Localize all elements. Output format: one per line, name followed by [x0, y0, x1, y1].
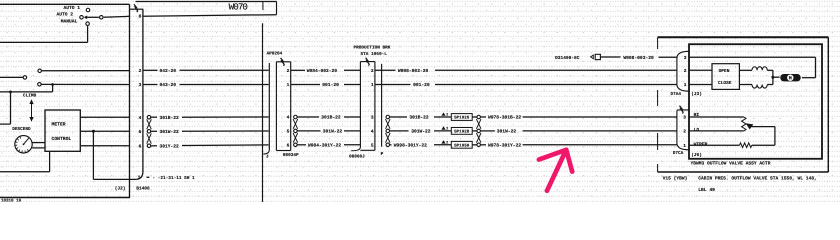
svg-text:301W-22: 301W-22 [497, 129, 517, 135]
svg-text:W984-301Y-22: W984-301Y-22 [308, 143, 341, 149]
svg-text:AP0204: AP0204 [267, 52, 283, 57]
svg-text:CLOSE: CLOSE [718, 80, 732, 86]
svg-text:SP1950: SP1950 [454, 143, 470, 148]
svg-text:4: 4 [371, 130, 374, 135]
svg-text:2: 2 [446, 140, 448, 145]
svg-text:3: 3 [371, 115, 374, 121]
svg-text:301Y-22: 301Y-22 [160, 144, 180, 150]
svg-text:2: 2 [287, 68, 290, 74]
svg-text:4: 4 [139, 116, 142, 121]
svg-text:M: M [789, 76, 792, 82]
svg-text:1: 1 [138, 175, 141, 180]
svg-text:D7CA: D7CA [673, 151, 684, 156]
svg-text:08060J: 08060J [349, 155, 365, 160]
svg-text:042-20: 042-20 [160, 68, 177, 74]
svg-text:MANUAL: MANUAL [61, 19, 78, 25]
svg-text:SP1928: SP1928 [454, 130, 470, 135]
svg-text:DESCEND: DESCEND [12, 127, 31, 132]
svg-text:001-20: 001-20 [413, 82, 430, 88]
svg-text:8: 8 [139, 14, 142, 20]
svg-text:W984-002-20: W984-002-20 [307, 68, 338, 74]
svg-text:METER: METER [52, 122, 66, 128]
svg-text:301W-22: 301W-22 [160, 129, 180, 135]
svg-text:CABIN PRES. OUTFLOW VALVE STA: CABIN PRES. OUTFLOW VALVE STA 1550, WL 1… [698, 176, 817, 182]
svg-text:V15 (YBW): V15 (YBW) [663, 176, 688, 182]
svg-text:301B-22: 301B-22 [160, 115, 180, 121]
svg-text:(J6): (J6) [691, 152, 702, 158]
svg-text:AUTO 1: AUTO 1 [63, 5, 80, 11]
svg-text:301B-22: 301B-22 [321, 115, 341, 121]
svg-text:3: 3 [139, 82, 142, 88]
svg-text:D31490-8C: D31490-8C [555, 55, 580, 61]
svg-text:LBL 49: LBL 49 [698, 187, 715, 193]
svg-text:6: 6 [139, 144, 142, 150]
svg-text:2: 2 [371, 68, 374, 74]
svg-text:2: 2 [446, 127, 448, 132]
svg-text:5: 5 [371, 144, 374, 149]
svg-text:6: 6 [287, 143, 290, 149]
svg-text:5: 5 [139, 130, 142, 135]
svg-text:- -21-31-11 SH 1: - -21-31-11 SH 1 [153, 176, 196, 181]
svg-text:AUTO 2: AUTO 2 [56, 12, 73, 18]
svg-text:08034P: 08034P [283, 153, 299, 158]
svg-text:10310 19: 10310 19 [1, 199, 22, 203]
svg-text:YBWM3 OUTFLOW VALVE ASSY ACTR: YBWM3 OUTFLOW VALVE ASSY ACTR [691, 160, 771, 166]
svg-text:B1408: B1408 [136, 185, 150, 191]
svg-text:OPEN: OPEN [719, 68, 730, 74]
svg-text:STA 1060-L: STA 1060-L [361, 52, 388, 57]
svg-text:W978-301Y-22: W978-301Y-22 [488, 143, 521, 149]
svg-text:SP1926: SP1926 [454, 116, 470, 121]
svg-text:D7A4: D7A4 [671, 92, 682, 97]
svg-text:(J2): (J2) [115, 185, 126, 191]
svg-text:W070: W070 [229, 2, 248, 13]
svg-text:WIPER: WIPER [694, 141, 708, 147]
svg-text:043-20: 043-20 [160, 82, 177, 88]
svg-text:PRODUCTION BRK: PRODUCTION BRK [354, 45, 391, 50]
svg-text:W998-002-20: W998-002-20 [398, 68, 429, 74]
svg-text:301B-22: 301B-22 [409, 115, 429, 121]
svg-text:LO: LO [694, 127, 700, 133]
svg-text:2: 2 [683, 129, 686, 135]
svg-text:4: 4 [287, 116, 290, 121]
svg-text:(J3): (J3) [691, 91, 702, 97]
svg-text:2: 2 [446, 113, 448, 118]
svg-text:1: 1 [287, 83, 290, 88]
svg-text:CLIMB: CLIMB [23, 93, 37, 98]
svg-text:3: 3 [684, 55, 687, 61]
svg-text:001-20: 001-20 [322, 82, 339, 88]
svg-text:W998-301Y-22: W998-301Y-22 [394, 143, 427, 149]
svg-text:W998-003-20: W998-003-20 [623, 55, 654, 61]
svg-text:1: 1 [684, 83, 687, 88]
svg-text:5: 5 [287, 130, 290, 135]
svg-text:301W-22: 301W-22 [411, 129, 431, 135]
svg-text:301W-22: 301W-22 [323, 129, 343, 135]
svg-text:P: P [381, 152, 384, 157]
svg-text:1: 1 [683, 144, 686, 149]
svg-text:CONTROL: CONTROL [52, 136, 72, 142]
svg-text:W978-301B-22: W978-301B-22 [488, 115, 521, 121]
svg-text:1: 1 [371, 83, 374, 88]
svg-text:2: 2 [139, 68, 142, 74]
svg-text:2: 2 [684, 68, 687, 74]
svg-text:3: 3 [683, 115, 686, 121]
